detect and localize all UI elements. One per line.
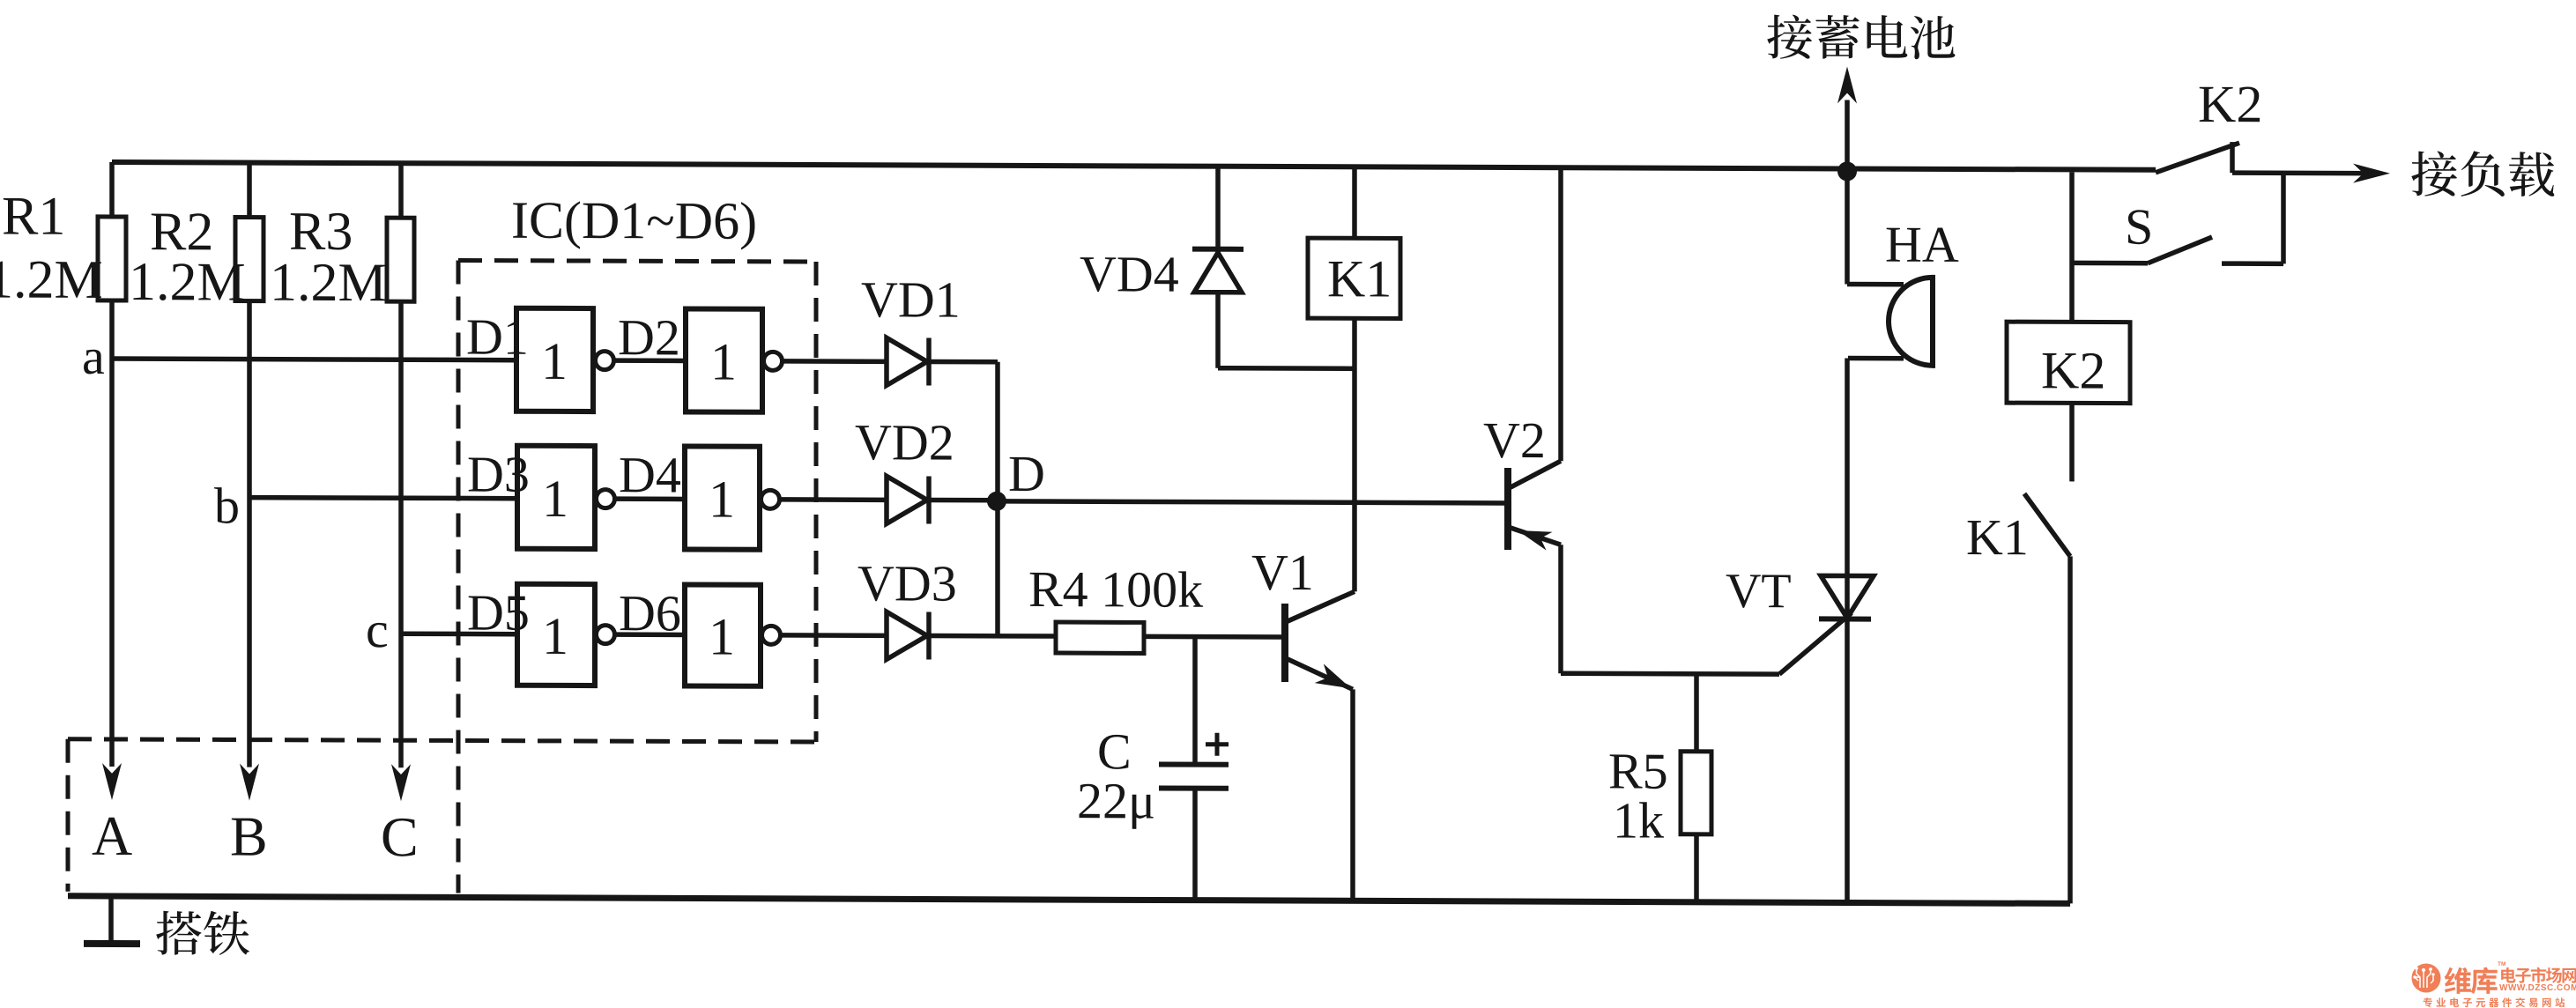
svg-text:b: b (214, 477, 240, 534)
svg-text:a: a (82, 328, 105, 385)
svg-text:B: B (230, 804, 268, 867)
svg-text:22μ: 22μ (1077, 772, 1155, 829)
svg-text:1k: 1k (1613, 791, 1664, 849)
svg-text:K2: K2 (2198, 75, 2262, 133)
svg-text:R1: R1 (2, 187, 65, 247)
svg-text:D: D (1008, 445, 1045, 502)
svg-text:1: 1 (542, 607, 568, 665)
svg-text:K1: K1 (1966, 508, 2029, 566)
svg-text:WWW.DZSC.COM: WWW.DZSC.COM (2499, 983, 2576, 993)
svg-text:1: 1 (541, 332, 568, 390)
svg-text:1: 1 (542, 470, 568, 528)
svg-text:D3: D3 (467, 446, 530, 503)
svg-text:D2: D2 (618, 308, 680, 366)
svg-text:V1: V1 (1251, 544, 1314, 601)
svg-text:D1: D1 (466, 308, 529, 366)
svg-text:VT: VT (1726, 564, 1792, 619)
svg-text:c: c (366, 601, 389, 658)
svg-text:D6: D6 (619, 584, 681, 641)
svg-text:1.2M: 1.2M (270, 253, 387, 314)
svg-text:VD1: VD1 (861, 271, 961, 328)
svg-text:1: 1 (710, 333, 737, 391)
svg-text:1: 1 (709, 608, 735, 666)
svg-text:VD3: VD3 (857, 554, 957, 611)
svg-text:K1: K1 (1327, 249, 1392, 308)
svg-text:D4: D4 (619, 446, 681, 503)
svg-text:TM: TM (2498, 961, 2505, 967)
svg-text:A: A (92, 804, 132, 867)
svg-text:V2: V2 (1483, 411, 1546, 469)
svg-text:S: S (2125, 198, 2153, 256)
svg-text:1: 1 (709, 471, 735, 529)
svg-text:K2: K2 (2041, 341, 2105, 399)
svg-text:HA: HA (1885, 216, 1959, 273)
svg-text:1.2M: 1.2M (129, 252, 246, 313)
svg-text:VD2: VD2 (855, 413, 954, 471)
svg-text:VD4: VD4 (1080, 245, 1179, 302)
svg-text:D5: D5 (467, 584, 530, 641)
svg-text:C: C (381, 805, 419, 868)
svg-text:IC(D1~D6): IC(D1~D6) (511, 191, 757, 250)
svg-text:1.2M: 1.2M (0, 249, 103, 310)
svg-text:R4 100k: R4 100k (1028, 560, 1203, 619)
